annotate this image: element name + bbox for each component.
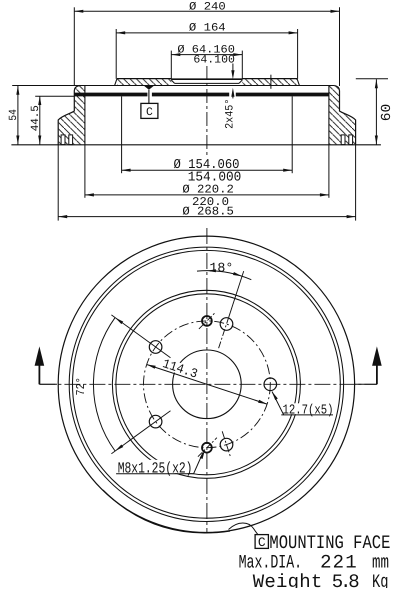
radial extension 306 hole bbox=[111, 315, 170, 358]
72 deg arc dimension bbox=[74, 318, 123, 451]
leader M8x1.25(x2) bbox=[116, 450, 205, 477]
radial extension 18 hole bbox=[229, 271, 244, 317]
bolt hole 12.7 at 162 deg bbox=[220, 431, 233, 458]
svg-text:M8x1.25(x2): M8x1.25(x2) bbox=[118, 460, 193, 478]
dim 54 left bbox=[8, 86, 20, 145]
svg-text:C: C bbox=[146, 107, 153, 119]
dim 114.3 across bolt circle bbox=[147, 356, 267, 404]
circle rim step outer bbox=[69, 247, 343, 521]
Ø220 extension right bbox=[328, 145, 330, 198]
centerline solid end left bbox=[39, 383, 57, 385]
dim Ø 64.160 / 64.100 bbox=[171, 45, 242, 67]
distorted outer rim arc bottom-left bbox=[103, 490, 230, 533]
band edge chamfer left bbox=[115, 79, 117, 86]
circle Ø164 flange bbox=[112, 290, 300, 478]
left foot slot 2 bbox=[69, 135, 73, 145]
bolt hole 12.7 at 234 deg bbox=[149, 415, 162, 428]
right foot slot 2 bbox=[349, 135, 353, 145]
braking surface right / Ø154 extension bbox=[291, 96, 293, 173]
bolt hole 12.7 at 90 deg bbox=[264, 378, 277, 391]
svg-text:Ø 164: Ø 164 bbox=[189, 22, 226, 34]
dim Ø 268.5 bbox=[58, 205, 355, 219]
dim 60 right bbox=[356, 79, 395, 145]
dim 44.5 left bbox=[30, 96, 75, 145]
dim Ø 154.060 / 154.000 bbox=[122, 158, 293, 185]
flange band top right (hatched) bbox=[242, 79, 297, 86]
bolt hole centerline tick in flange bbox=[270, 75, 272, 89]
hub bore recess floor line bbox=[175, 82, 239, 84]
centerline solid end right bbox=[355, 383, 377, 385]
chamfer 2x45 upper arrow bbox=[231, 64, 234, 80]
extension lines Ø 164 bbox=[116, 29, 297, 79]
svg-text:C: C bbox=[258, 535, 266, 550]
circle Ø240 bbox=[73, 250, 341, 518]
svg-text:Weight: Weight bbox=[253, 571, 322, 588]
hub bore chamfer left 2x45 bbox=[171, 80, 174, 83]
flange band top left (hatched) bbox=[117, 79, 171, 86]
right wall hatch region bbox=[329, 86, 355, 144]
outer circle Ø268.5 bbox=[58, 236, 354, 532]
dim Ø 220.2 / 220.0 bbox=[85, 183, 329, 210]
mounting face thick line bbox=[74, 93, 329, 97]
braking surface left / Ø154 extension bbox=[121, 96, 123, 173]
svg-text:5.8: 5.8 bbox=[332, 571, 360, 588]
svg-text:54: 54 bbox=[8, 109, 20, 121]
note C box bbox=[255, 535, 268, 549]
section arrow left bbox=[35, 346, 45, 384]
svg-text:18°: 18° bbox=[209, 260, 233, 275]
left foot slot 1 bbox=[61, 135, 65, 145]
band edge chamfer right bbox=[297, 79, 299, 86]
drum open-end bottom edge bbox=[11, 144, 381, 146]
bolt hole 12.7 at 18 deg bbox=[220, 318, 233, 331]
Ø268.5 extension right bbox=[355, 145, 357, 221]
bolt hole 12.7 at 306 deg bbox=[149, 341, 162, 354]
left wall hatch region bbox=[59, 86, 85, 144]
svg-text:72°: 72° bbox=[74, 377, 88, 395]
hub bore chamfer right 2x45 bbox=[239, 80, 242, 83]
svg-text:2x45°: 2x45° bbox=[225, 99, 237, 129]
horizontal centerline bbox=[39, 383, 377, 385]
vertical centerline bbox=[206, 228, 208, 533]
leader 12.7(x5) bbox=[272, 392, 334, 419]
break line wave at bottom bbox=[229, 523, 269, 542]
datum C triangle bbox=[144, 86, 154, 90]
dim line Ø 240 bbox=[74, 1, 339, 13]
circle braking surface Ø154 bbox=[116, 294, 297, 475]
svg-text:44.5: 44.5 bbox=[30, 105, 42, 131]
section arrow right bbox=[372, 346, 382, 384]
hub bore circle Ø64 bbox=[173, 350, 242, 419]
right wall inner edge bbox=[328, 86, 330, 145]
svg-text:Kg: Kg bbox=[372, 571, 389, 588]
svg-text:60: 60 bbox=[380, 104, 395, 122]
right foot slot 1 bbox=[341, 135, 345, 145]
left wall outer profile bbox=[58, 86, 79, 145]
M8 hole bottom bbox=[198, 438, 217, 457]
chamfer 2x45 lower leader and label bbox=[225, 88, 237, 129]
extension lines Ø 240 bbox=[74, 7, 339, 86]
datum C box bbox=[141, 103, 158, 118]
radial extension 234 hole bbox=[111, 411, 170, 454]
top surface line / 54-dim extension bbox=[12, 85, 334, 87]
svg-text:Ø 268.5: Ø 268.5 bbox=[182, 205, 234, 219]
Ø268.5 extension left bbox=[57, 145, 59, 221]
dim line Ø 164 bbox=[116, 22, 297, 34]
section centerline axis bbox=[206, 66, 208, 156]
Ø220 extension left bbox=[84, 145, 86, 198]
hub bore top edge line bbox=[171, 78, 242, 80]
svg-text:12.7(x5): 12.7(x5) bbox=[283, 403, 334, 418]
left wall inner edge bbox=[84, 86, 86, 145]
bolt circle Ø114.3 bbox=[144, 321, 271, 448]
datum C leader bbox=[148, 90, 150, 104]
extension lines Ø 64 bbox=[171, 51, 242, 80]
right wall outer profile bbox=[334, 86, 355, 145]
18 deg arc dimension bbox=[197, 260, 251, 279]
M8 hole top bbox=[199, 313, 215, 329]
svg-text:64.100: 64.100 bbox=[193, 54, 235, 66]
svg-text:Ø 240: Ø 240 bbox=[189, 1, 226, 13]
radial dash through 18 hole bbox=[219, 317, 229, 348]
